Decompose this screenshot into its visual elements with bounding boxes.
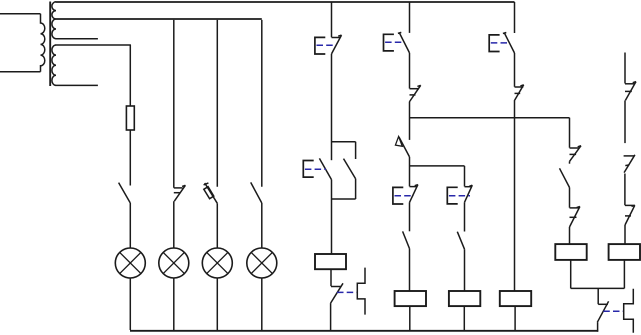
relay coil K4 bbox=[500, 291, 531, 306]
wire bbox=[624, 53, 626, 84]
wire bbox=[464, 166, 466, 187]
wire bbox=[129, 130, 131, 186]
wire bbox=[409, 102, 411, 140]
wire bbox=[623, 260, 625, 289]
pushbutton E1 break contact bbox=[332, 35, 342, 54]
pushbutton E2 label E bbox=[303, 161, 313, 178]
relay coil K2 bbox=[395, 291, 426, 306]
wire bbox=[624, 225, 626, 244]
wire bbox=[463, 306, 465, 330]
pushbutton E5 break contact bbox=[465, 185, 473, 202]
wire branch rung bbox=[410, 165, 465, 167]
wire secondary 2 top tap bbox=[56, 44, 131, 46]
wire bbox=[129, 203, 131, 248]
wire bbox=[129, 278, 131, 330]
wire secondary 2 bottom stub bbox=[56, 84, 98, 86]
wire bbox=[569, 118, 571, 148]
pushbutton E6 make contact bbox=[503, 33, 515, 54]
wire bbox=[261, 20, 263, 187]
relay coil K6 bbox=[609, 244, 640, 260]
wire bbox=[331, 2, 333, 37]
pushbutton E5 actuator link bbox=[449, 195, 470, 197]
switch S1 contact bbox=[119, 183, 131, 203]
mechanical latch D1 bbox=[357, 268, 365, 315]
mechanical latch D2 bbox=[624, 289, 634, 333]
wire bbox=[330, 303, 332, 330]
wire bbox=[514, 306, 516, 330]
wire bbox=[261, 278, 263, 330]
wire bbox=[597, 322, 599, 331]
lamp H1 bbox=[115, 248, 145, 278]
wire bbox=[173, 20, 175, 188]
wire bbox=[331, 54, 333, 160]
contact K7 make contact bbox=[560, 168, 570, 187]
contact K4 make contact bbox=[457, 232, 464, 250]
mechanical link to latch D2 bbox=[603, 310, 623, 312]
wire bbox=[129, 45, 131, 106]
contact K12 break contact bbox=[625, 205, 635, 225]
transformer T1 secondary winding 1 bbox=[52, 2, 56, 39]
pushbutton E6 actuator link bbox=[491, 42, 510, 44]
contact K9 break contact bbox=[597, 301, 608, 322]
contact K3 make contact bbox=[403, 231, 410, 248]
pushbutton E4 actuator link bbox=[395, 195, 415, 197]
wire bbox=[570, 260, 572, 289]
pushbutton E1 label E bbox=[315, 37, 325, 54]
wire bbox=[409, 202, 411, 231]
wire bbox=[514, 101, 516, 291]
transformer T1 core bbox=[49, 2, 51, 87]
pushbutton E3 make contact bbox=[398, 32, 410, 53]
wire bbox=[409, 306, 411, 330]
mechanical link to latch D1 bbox=[337, 291, 357, 293]
wire bbox=[330, 269, 332, 286]
wire bbox=[514, 2, 516, 33]
wire bottom return bus bbox=[130, 330, 598, 332]
contact K6 break contact bbox=[570, 146, 582, 162]
wire bbox=[0, 13, 41, 15]
lamp H3 bbox=[202, 248, 232, 278]
switch S3 contact with roller bbox=[204, 183, 218, 203]
limit switch S5 make contact bbox=[395, 137, 409, 157]
wire secondary tap stub bbox=[56, 38, 98, 40]
contact K11 break contact mirrored bbox=[624, 155, 635, 173]
transformer T1 secondary winding 2 bbox=[52, 45, 56, 85]
contact K1 break contact bbox=[331, 283, 343, 303]
pushbutton E3 label E bbox=[384, 34, 394, 51]
wire cross rung bbox=[410, 117, 570, 119]
lamp H4 bbox=[247, 248, 277, 278]
contact K5 break contact bbox=[514, 85, 524, 101]
contact K10 break contact bbox=[625, 82, 636, 101]
pushbutton E2 parallel contact block bbox=[319, 142, 355, 199]
wire coil join rung bbox=[571, 287, 625, 289]
pushbutton E5 label E bbox=[447, 187, 457, 204]
wire bbox=[216, 20, 218, 187]
wire bbox=[624, 100, 626, 143]
transformer T1 primary winding bbox=[41, 14, 45, 72]
contact K2 break contact bbox=[409, 85, 420, 102]
wire top supply bus bbox=[56, 1, 515, 3]
wire bbox=[216, 278, 218, 330]
wire bbox=[331, 180, 333, 254]
pushbutton E4 label E bbox=[393, 187, 403, 204]
wire bbox=[597, 288, 599, 304]
wire bbox=[514, 53, 516, 87]
contact K8 break contact bbox=[570, 207, 580, 228]
switch S2 break contact bbox=[174, 185, 186, 201]
fuse F1 bbox=[126, 106, 134, 130]
wire bbox=[409, 157, 411, 187]
wire lamp supply bus bbox=[56, 18, 262, 20]
wire bbox=[409, 249, 411, 291]
wire bbox=[261, 203, 263, 248]
pushbutton E2 actuator link bbox=[305, 168, 326, 170]
wire bbox=[216, 203, 218, 248]
relay coil K5 bbox=[555, 244, 586, 260]
wire bbox=[464, 202, 466, 231]
wire bbox=[569, 188, 571, 208]
pushbutton E6 label E bbox=[489, 35, 499, 52]
wire bbox=[173, 201, 175, 248]
relay coil K1 bbox=[315, 254, 346, 269]
wire bbox=[409, 2, 411, 33]
wire bbox=[624, 174, 626, 206]
pushbutton E1 actuator link bbox=[317, 44, 337, 46]
wire bbox=[0, 71, 41, 73]
pushbutton E3 actuator link bbox=[385, 41, 404, 43]
wire bbox=[173, 278, 175, 330]
wire bbox=[569, 161, 571, 163]
wire bbox=[409, 53, 411, 89]
wire bbox=[464, 249, 466, 291]
pushbutton E4 break contact bbox=[410, 185, 418, 203]
wire bbox=[569, 227, 571, 244]
relay coil K3 bbox=[449, 291, 480, 306]
lamp H2 bbox=[159, 248, 189, 278]
switch S4 contact bbox=[251, 182, 262, 203]
